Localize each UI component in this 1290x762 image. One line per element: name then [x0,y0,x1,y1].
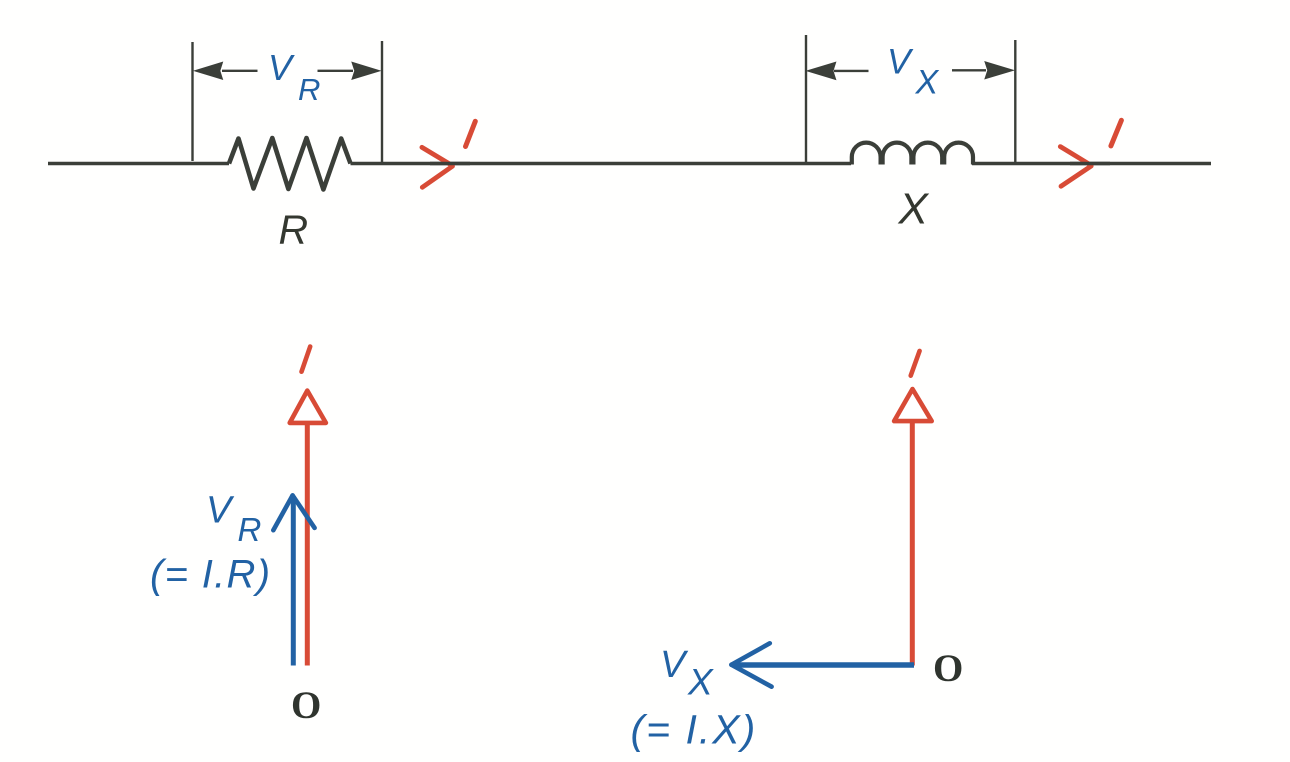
svg-text:X: X [898,185,930,234]
node tick right of R [381,41,383,163]
wire segment over right chevron [1070,162,1110,165]
label I (left phasor, red) [302,347,311,372]
phasor I vector (right diagram, red) [894,389,932,666]
dimension arrow left (VX) [807,62,868,79]
phasor I vector (left diagram, red) [290,391,326,666]
resistor R1 zigzag [229,138,351,190]
svg-text:O: O [933,647,963,690]
current arrow chevron I (left circuit) [422,147,453,187]
label VX (right phasor, blue) [660,644,714,703]
wire middle segment [351,162,852,165]
svg-text:X: X [687,662,714,703]
dimension arrow right (VR) [318,62,381,79]
label VX (blue) [887,42,940,102]
wire right segment [972,162,1211,165]
svg-text:X: X [915,64,940,102]
svg-text:R: R [238,511,262,548]
svg-text:R: R [298,72,320,107]
svg-text:O: O [291,684,321,727]
dimension arrow right (VX) [952,62,1014,79]
label I (left circuit, red) [466,121,476,146]
node tick right of X [1014,40,1016,163]
phasor VX vector (right diagram, blue) [731,643,914,686]
svg-text:V: V [206,490,235,532]
dimension arrow left (VR) [195,62,258,79]
svg-text:V: V [268,47,295,88]
inductor X1 coils [852,143,973,165]
label I (right phasor, red) [911,351,920,376]
label VR (blue) [268,47,320,107]
node tick left of X [805,35,807,163]
label VR (left phasor, blue) [206,490,261,549]
wire left segment [48,162,229,165]
wire segment over left chevron [430,162,470,165]
svg-text:(= I.X): (= I.X) [631,707,758,753]
node tick left of R [191,42,193,161]
label I (right circuit, red) [1111,120,1122,146]
svg-text:R: R [279,207,309,253]
svg-text:V: V [887,42,914,82]
svg-text:(= I.R): (= I.R) [150,553,271,597]
svg-text:V: V [660,644,689,686]
current arrow chevron I (right circuit) [1060,147,1091,187]
phasor VR vector (left diagram, blue) [273,495,314,665]
